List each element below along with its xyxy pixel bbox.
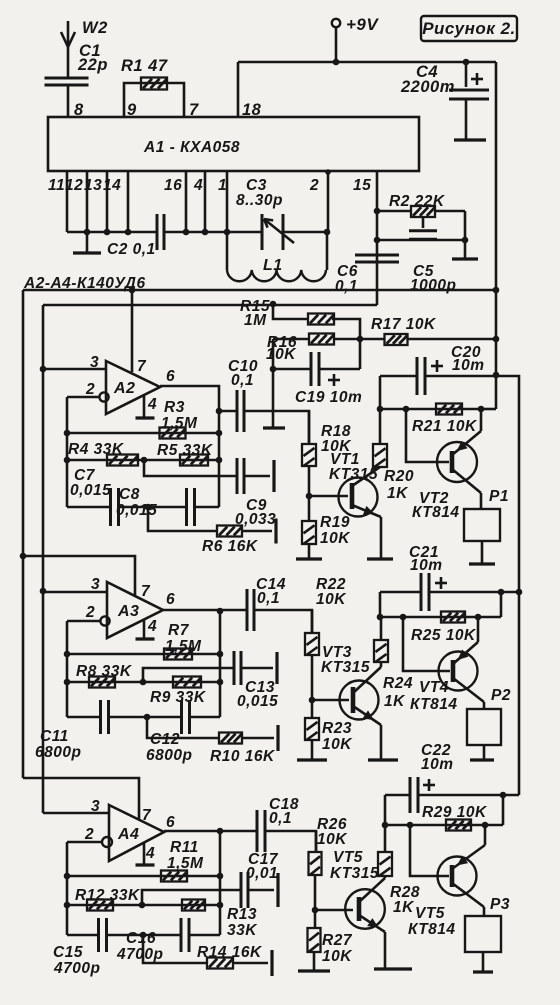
- svg-text:0,015: 0,015: [70, 482, 111, 499]
- svg-text:11: 11: [48, 177, 65, 194]
- svg-text:A1 - КХА058: A1 - КХА058: [143, 139, 240, 156]
- svg-text:C2 0,1: C2 0,1: [107, 241, 156, 258]
- svg-text:6: 6: [166, 591, 175, 608]
- svg-text:A4: A4: [117, 826, 139, 843]
- svg-text:3: 3: [90, 354, 99, 371]
- svg-text:R20: R20: [384, 468, 414, 485]
- svg-text:18: 18: [242, 101, 262, 119]
- svg-text:C12: C12: [150, 731, 180, 748]
- svg-text:R12 33K: R12 33K: [75, 887, 141, 904]
- svg-text:10m: 10m: [410, 557, 443, 574]
- svg-text:0,1: 0,1: [257, 590, 280, 607]
- svg-text:R3: R3: [164, 399, 185, 416]
- svg-text:+9V: +9V: [346, 15, 379, 34]
- svg-text:W2: W2: [82, 19, 108, 37]
- svg-text:R6 16K: R6 16K: [202, 538, 259, 555]
- svg-text:KT315: KT315: [330, 865, 379, 882]
- svg-text:R27: R27: [322, 932, 353, 949]
- svg-text:1,5M: 1,5M: [161, 415, 198, 432]
- svg-text:1K: 1K: [393, 899, 415, 916]
- svg-text:1,5M: 1,5M: [167, 855, 204, 872]
- svg-text:2: 2: [85, 381, 95, 398]
- svg-text:0,015: 0,015: [116, 502, 157, 519]
- svg-text:0,1: 0,1: [269, 810, 292, 827]
- svg-text:R13: R13: [227, 906, 257, 923]
- svg-text:33K: 33K: [227, 922, 258, 939]
- svg-text:10K: 10K: [322, 948, 353, 965]
- svg-text:4700p: 4700p: [53, 960, 100, 977]
- svg-text:R7: R7: [168, 622, 190, 639]
- svg-text:2: 2: [309, 177, 319, 194]
- svg-text:4: 4: [145, 845, 155, 862]
- svg-text:P2: P2: [491, 687, 511, 704]
- svg-text:VT5: VT5: [333, 849, 363, 866]
- svg-text:2: 2: [84, 826, 94, 843]
- svg-text:KT315: KT315: [321, 659, 370, 676]
- svg-text:10m: 10m: [421, 756, 454, 773]
- svg-text:R5 33K: R5 33K: [157, 442, 214, 459]
- svg-text:1: 1: [218, 177, 227, 194]
- svg-text:0,01: 0,01: [246, 865, 278, 882]
- svg-text:14: 14: [103, 177, 121, 194]
- svg-text:R10 16K: R10 16K: [210, 748, 276, 765]
- svg-text:0,1: 0,1: [335, 278, 358, 295]
- svg-text:10K: 10K: [316, 591, 347, 608]
- svg-text:0,1: 0,1: [231, 372, 254, 389]
- svg-text:R19: R19: [320, 514, 350, 531]
- svg-text:C19 10m: C19 10m: [295, 389, 362, 406]
- svg-text:22p: 22p: [77, 56, 108, 74]
- svg-text:1,5M: 1,5M: [165, 638, 202, 655]
- svg-text:8: 8: [74, 101, 84, 119]
- svg-text:9: 9: [127, 101, 137, 119]
- svg-text:10K: 10K: [322, 736, 353, 753]
- svg-text:1000p: 1000p: [410, 277, 456, 294]
- svg-text:A3: A3: [117, 603, 139, 620]
- svg-text:16: 16: [164, 177, 182, 194]
- svg-text:R11: R11: [170, 839, 199, 856]
- svg-text:2: 2: [85, 604, 95, 621]
- svg-text:VT4: VT4: [419, 679, 449, 696]
- svg-text:3: 3: [91, 576, 100, 593]
- svg-text:6: 6: [166, 368, 175, 385]
- svg-text:KT315: KT315: [329, 466, 378, 483]
- svg-text:R1 47: R1 47: [121, 57, 168, 75]
- svg-text:R8 33K: R8 33K: [76, 663, 133, 680]
- svg-text:10K: 10K: [317, 831, 348, 848]
- svg-text:C15: C15: [53, 944, 83, 961]
- svg-text:4: 4: [147, 618, 157, 635]
- svg-text:0,015: 0,015: [237, 693, 278, 710]
- svg-text:A2: A2: [113, 380, 135, 397]
- svg-text:КТ814: КТ814: [410, 696, 458, 713]
- svg-text:VT5: VT5: [415, 905, 445, 922]
- svg-text:А2-А4-К140УД6: А2-А4-К140УД6: [23, 275, 146, 292]
- svg-text:15: 15: [353, 177, 371, 194]
- svg-text:R29 10K: R29 10K: [422, 804, 488, 821]
- svg-text:1M: 1M: [244, 312, 267, 329]
- svg-text:R17 10K: R17 10K: [371, 316, 437, 333]
- svg-text:R2 22K: R2 22K: [389, 193, 446, 210]
- svg-text:13: 13: [84, 177, 102, 194]
- svg-text:6800p: 6800p: [35, 744, 81, 761]
- svg-text:0,033: 0,033: [235, 511, 276, 528]
- svg-text:R9 33K: R9 33K: [150, 689, 207, 706]
- svg-text:7: 7: [189, 101, 199, 119]
- svg-text:3: 3: [91, 798, 100, 815]
- svg-text:8..30p: 8..30p: [236, 192, 283, 209]
- svg-text:C16: C16: [126, 930, 156, 947]
- svg-text:6800p: 6800p: [146, 747, 192, 764]
- svg-text:7: 7: [141, 583, 151, 600]
- svg-text:6: 6: [166, 814, 175, 831]
- svg-text:КТ814: КТ814: [408, 921, 456, 938]
- svg-text:R25 10K: R25 10K: [411, 627, 477, 644]
- svg-text:R21 10K: R21 10K: [412, 418, 478, 435]
- svg-text:1K: 1K: [387, 485, 409, 502]
- svg-text:L1: L1: [263, 257, 283, 274]
- svg-text:R23: R23: [322, 720, 352, 737]
- svg-text:КТ814: КТ814: [412, 504, 460, 521]
- svg-text:10m: 10m: [452, 357, 485, 374]
- svg-text:P1: P1: [489, 488, 509, 505]
- svg-text:R24: R24: [383, 675, 413, 692]
- svg-text:4: 4: [193, 177, 203, 194]
- svg-text:R4 33K: R4 33K: [68, 441, 125, 458]
- svg-text:C8: C8: [119, 486, 140, 503]
- svg-text:12: 12: [65, 177, 83, 194]
- svg-text:C11: C11: [40, 728, 69, 745]
- svg-text:7: 7: [137, 358, 147, 375]
- svg-text:4: 4: [147, 396, 157, 413]
- svg-text:1K: 1K: [384, 693, 406, 710]
- svg-text:7: 7: [142, 807, 152, 824]
- svg-text:2200m: 2200m: [400, 78, 455, 96]
- svg-text:P3: P3: [490, 896, 510, 913]
- svg-text:Рисунок 2.: Рисунок 2.: [422, 19, 516, 38]
- svg-text:10K: 10K: [320, 530, 351, 547]
- svg-text:4700p: 4700p: [116, 946, 163, 963]
- svg-text:10K: 10K: [266, 346, 297, 363]
- svg-text:R14 16K: R14 16K: [197, 944, 263, 961]
